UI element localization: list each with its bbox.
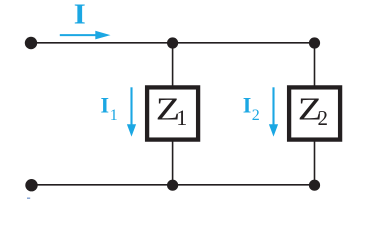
svg-text:2: 2 <box>252 107 260 124</box>
stray caption speck <box>27 198 30 199</box>
impedance Z1 box <box>147 87 198 139</box>
wire top rail <box>31 42 315 44</box>
arrow current I1 (downward) <box>127 87 136 136</box>
arrow current I2 (downward) <box>269 87 278 136</box>
svg-text:I: I <box>74 0 86 30</box>
arrow current I (rightward) <box>60 31 111 40</box>
svg-text:1: 1 <box>176 105 187 130</box>
node junction top (Z1 branch) <box>167 37 178 48</box>
svg-text:2: 2 <box>318 106 329 130</box>
label Z2 <box>298 91 328 130</box>
node junction bottom (Z1 branch) <box>167 180 178 191</box>
label current I2 <box>243 93 260 124</box>
node terminal top-left <box>25 37 37 49</box>
node terminal bottom-left <box>25 179 37 191</box>
label current I1 <box>101 93 118 124</box>
wire Z1 top lead <box>172 43 174 86</box>
wire bottom rail <box>32 184 315 186</box>
node bottom-right (Z2 branch) <box>309 180 320 191</box>
node top-right (Z2 branch) <box>309 37 320 48</box>
svg-text:I: I <box>243 93 252 118</box>
wire Z2 top lead <box>314 43 316 86</box>
wire Z1 bottom lead <box>172 141 174 186</box>
svg-text:1: 1 <box>110 107 118 124</box>
svg-text:I: I <box>101 93 110 118</box>
wire Z2 bottom lead <box>314 141 316 186</box>
label Z1 <box>156 91 187 130</box>
impedance Z2 box <box>289 87 340 139</box>
